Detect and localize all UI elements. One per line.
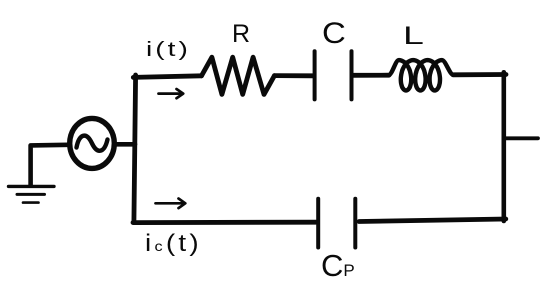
capacitor CP right plate bbox=[353, 199, 357, 248]
current arrow ic(t) bbox=[156, 199, 186, 209]
wire source to node A bbox=[115, 142, 136, 147]
wire bottom left bbox=[133, 220, 316, 225]
label L bbox=[403, 24, 424, 49]
resistor R bbox=[202, 57, 275, 94]
capacitor C left plate bbox=[313, 51, 317, 99]
wire ground to source bbox=[31, 145, 68, 185]
current arrow i(t) bbox=[159, 89, 184, 98]
label R bbox=[232, 22, 250, 47]
label CP bbox=[321, 250, 355, 281]
wire right bus bbox=[501, 72, 506, 221]
label ic(t) bbox=[145, 232, 202, 256]
wire resistor to C bbox=[275, 73, 313, 78]
wire left bus bbox=[134, 75, 136, 223]
wire bottom right bbox=[359, 219, 506, 222]
wire L to top right corner bbox=[453, 72, 506, 77]
label C bbox=[322, 19, 346, 49]
wire C to L bbox=[354, 73, 390, 78]
capacitor C right plate bbox=[350, 51, 354, 99]
sine symbol bbox=[77, 136, 108, 151]
output stub bbox=[506, 136, 539, 140]
AC source V1 bbox=[70, 118, 115, 168]
capacitor CP left plate bbox=[316, 199, 320, 248]
ground bbox=[9, 186, 55, 202]
label i(t) bbox=[146, 40, 191, 60]
wire top left bbox=[133, 76, 201, 78]
inductor L bbox=[388, 60, 453, 90]
